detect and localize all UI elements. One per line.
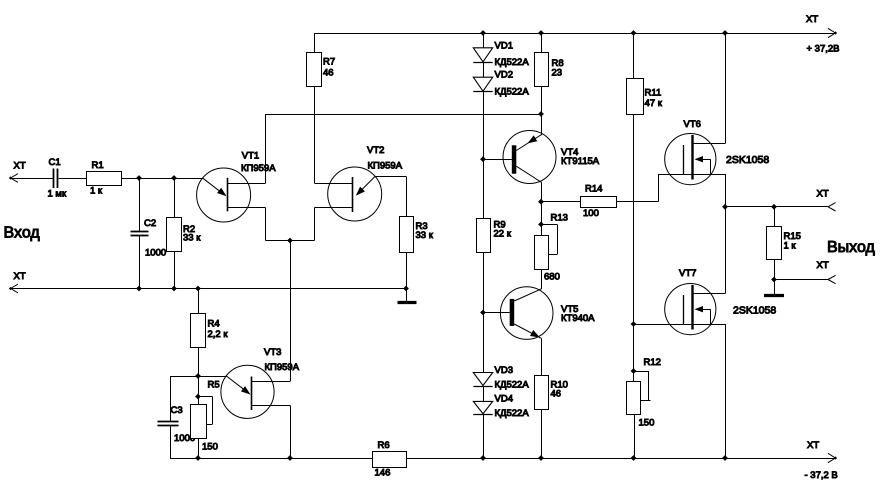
node top rail junction VT6 — [722, 30, 728, 36]
resistor R2 — [167, 218, 182, 252]
wire VD1-VD2 — [483, 63, 485, 77]
transistor VT1 channel bar — [227, 178, 229, 212]
transistor VT5 circle — [500, 287, 553, 340]
label XT input lower — [14, 271, 26, 282]
svg-text:XT: XT — [807, 440, 819, 451]
wire R4 upper — [198, 289, 200, 314]
label R13 value 680 — [544, 272, 560, 283]
wire input to C1 — [11, 178, 54, 180]
wire gate column middle — [633, 202, 635, 324]
transistor VT3 channel bar — [251, 377, 253, 411]
node R3 ground junction — [403, 286, 409, 292]
node bottom rail VD4 — [480, 455, 486, 461]
svg-text:VT3: VT3 — [264, 347, 281, 358]
transistor VT4 collector diagonal — [516, 166, 541, 182]
wire base node to R9 — [483, 159, 485, 218]
node common rail C2 — [136, 286, 142, 292]
wire VT5 emitter down — [541, 338, 543, 375]
wire VD3-VD4 — [483, 387, 485, 402]
wire VT4 base lead — [483, 159, 512, 161]
transistor VT5 collector diagonal — [514, 289, 541, 301]
wire VT1 drain up — [265, 114, 267, 183]
label R14 — [585, 184, 602, 195]
svg-text:КД522А: КД522А — [495, 380, 530, 391]
label XT top right — [806, 14, 818, 25]
label R15 — [784, 231, 801, 242]
label -37,2V — [805, 470, 838, 481]
XT terminal +37V arrow — [828, 28, 837, 37]
svg-text:1000: 1000 — [145, 247, 166, 258]
resistor R15 — [767, 227, 782, 260]
svg-text:R13: R13 — [551, 213, 568, 224]
svg-text:КТ940А: КТ940А — [561, 313, 595, 324]
wire VT4 to R13 — [541, 202, 543, 235]
label R4 — [208, 318, 220, 329]
svg-text:R14: R14 — [585, 184, 602, 195]
svg-text:1 мк: 1 мк — [48, 188, 67, 199]
node R8/drive junction — [538, 111, 544, 117]
wire C2 lower — [139, 236, 141, 289]
transistor VT3 collector lead — [251, 381, 290, 383]
transistor VT7 substrate arrow — [695, 306, 711, 324]
svg-text:C2: C2 — [144, 218, 156, 229]
XT output terminal lower — [828, 275, 836, 283]
transistor VT5 emitter diagonal — [514, 324, 541, 338]
wire VD4 to bottom rail — [483, 415, 485, 458]
label C2 value 1000 — [145, 247, 166, 258]
svg-text:КД522А: КД522А — [495, 87, 530, 98]
wire VD1 top — [483, 33, 485, 48]
resistor R6 — [373, 452, 407, 468]
label VD4 type КД522А — [495, 408, 530, 419]
svg-text:КТ9115А: КТ9115А — [561, 156, 600, 167]
diode VD2 — [473, 77, 492, 91]
svg-text:- 37,2 В: - 37,2 В — [805, 470, 838, 481]
svg-text:C1: C1 — [49, 157, 61, 168]
node VT3 bottom rail junction — [287, 455, 293, 461]
wire VT5 base lead — [483, 312, 510, 314]
svg-text:1 к: 1 к — [90, 186, 103, 197]
wire VT6 gate riser — [658, 174, 683, 202]
node input/R2 junction — [171, 175, 177, 181]
label R5 value 150 — [202, 441, 218, 452]
label R9 value 22 к — [494, 228, 512, 239]
svg-text:VD1: VD1 — [495, 40, 513, 51]
label R14 value 100 — [583, 208, 599, 219]
wire R15 top — [774, 207, 776, 226]
node top rail junction R11 — [631, 30, 637, 36]
svg-text:22 к: 22 к — [494, 228, 512, 239]
wire lower output line — [774, 279, 828, 281]
label Выход — [827, 239, 876, 256]
svg-text:R5: R5 — [208, 380, 220, 391]
svg-text:КП959А: КП959А — [241, 163, 276, 174]
resistor R3 — [400, 217, 414, 253]
resistor R7 — [307, 53, 322, 87]
svg-text:100: 100 — [583, 208, 599, 219]
XT output terminal upper — [828, 203, 836, 211]
svg-text:КП959А: КП959А — [368, 160, 403, 171]
label R8 — [552, 58, 564, 69]
node R15 ground junction — [771, 277, 777, 283]
wire R14 to gate riser — [616, 201, 658, 203]
transistor VT6 circle — [665, 134, 716, 185]
label XT output upper — [817, 189, 829, 200]
node input/C2 junction — [136, 175, 142, 181]
wire node to VT4 emitter — [541, 114, 543, 135]
transistor VT2 drain lead — [315, 183, 353, 185]
resistor R14 — [581, 197, 617, 208]
transistor VT7 source lead — [683, 324, 725, 326]
wire VT4 collector down — [541, 183, 543, 202]
wire VT2 gate to R3 — [375, 176, 406, 216]
label R6 value 146 — [375, 467, 391, 478]
label R11 — [645, 88, 662, 99]
wire output line — [725, 206, 828, 208]
label R2 — [183, 224, 195, 235]
resistor R4 — [191, 314, 206, 348]
wire source tail link — [266, 240, 315, 242]
wire C3 branch — [170, 376, 198, 421]
label R7 — [323, 56, 335, 67]
svg-text:VT1: VT1 — [242, 150, 259, 161]
svg-text:46: 46 — [323, 67, 334, 78]
svg-text:33 к: 33 к — [183, 232, 201, 243]
resistor R10 — [535, 376, 549, 410]
wire R13 to VT5 collector — [541, 269, 543, 289]
svg-text:2SK1058: 2SK1058 — [726, 154, 769, 166]
label XT bottom right — [807, 440, 819, 451]
svg-text:+ 37,2В: + 37,2В — [807, 44, 840, 55]
node top rail junction R8 — [538, 30, 544, 36]
node top rail junction VD1 — [480, 30, 486, 36]
transistor VT7 gate bar — [683, 295, 685, 324]
svg-text:XT: XT — [14, 160, 26, 171]
node R12 tap junction — [631, 368, 637, 374]
ground symbol at R3 — [398, 289, 417, 303]
wire drain line to R8 node — [266, 114, 542, 116]
svg-text:C3: C3 — [171, 405, 183, 416]
diode VD1 — [473, 48, 492, 63]
wire gate column lower — [633, 324, 635, 381]
label R11 value 47 к — [645, 98, 663, 109]
transistor VT1 gate diagonal — [203, 178, 227, 196]
label C3 — [171, 405, 183, 416]
svg-text:R7: R7 — [323, 56, 335, 67]
label C1 — [49, 157, 61, 168]
svg-text:VD4: VD4 — [495, 393, 513, 404]
label R9 — [494, 220, 506, 231]
node R14 junction — [538, 199, 544, 205]
svg-text:46: 46 — [551, 388, 562, 399]
svg-text:2SK1058: 2SK1058 — [733, 304, 776, 316]
wire VT3 emitter to rail — [290, 405, 292, 458]
transistor VT2 circle — [328, 167, 382, 221]
label R1 value 1 к — [90, 186, 103, 197]
transistor VT4 emitter diagonal — [516, 134, 541, 150]
transistor VT1 drain lead — [227, 183, 265, 185]
wire bottom rail left — [170, 458, 372, 460]
label R4 value 2,2 к — [208, 329, 229, 340]
label VD3 — [495, 365, 513, 376]
transistor VT6 channel bar — [691, 135, 693, 180]
node R13 tap junction — [538, 222, 544, 228]
wire gate line to VT3 — [198, 376, 227, 378]
svg-text:150: 150 — [202, 441, 218, 452]
transistor VT1 circle — [197, 168, 251, 222]
wire bottom rail right — [407, 458, 836, 460]
label R10 value 46 — [551, 388, 562, 399]
wire VT6 source to VT7 drain — [725, 207, 727, 294]
resistor R9 — [477, 219, 491, 253]
node common rail R2 — [171, 286, 177, 292]
wire R2 lower — [174, 251, 176, 289]
ground symbol at R15 — [764, 280, 784, 296]
transistor VT6 substrate arrow — [695, 156, 711, 174]
wire input common rail — [11, 288, 407, 290]
wire R7 top — [314, 33, 316, 52]
node bottom rail R10 — [538, 455, 544, 461]
svg-text:VT7: VT7 — [679, 268, 696, 279]
wire to R14 — [541, 201, 581, 203]
svg-text:R12: R12 — [644, 357, 661, 368]
label VT6 type 2SK1058 — [726, 154, 769, 166]
transistor VT5 base bar — [510, 299, 515, 326]
label Вход — [4, 225, 41, 242]
svg-text:680: 680 — [544, 272, 560, 283]
resistor R13 tap wire — [541, 224, 558, 254]
wire R11 to gate node — [633, 114, 635, 202]
label R3 value 33 к — [416, 230, 434, 241]
transistor VT4 circle — [503, 131, 556, 184]
label R3 — [416, 221, 428, 232]
node R4/C3/VT3-gate junction — [195, 373, 201, 379]
svg-text:XT: XT — [806, 14, 818, 25]
label VT4 type КТ9115А — [561, 156, 600, 167]
node common rail R4 — [195, 286, 201, 292]
transistor VT3 gate diagonal — [226, 376, 250, 395]
node output junction — [722, 204, 728, 210]
transistor VT3 emitter lead — [251, 405, 290, 407]
wire C2 upper — [139, 178, 141, 231]
transistor VT3 circle — [221, 365, 274, 418]
svg-text:R1: R1 — [92, 160, 104, 171]
wire +37V top rail — [315, 33, 836, 35]
svg-text:2,2 к: 2,2 к — [208, 329, 229, 340]
wire R7 to VT2 drain — [314, 87, 316, 184]
label R15 value 1 к — [784, 241, 797, 252]
XT input terminal lower — [9, 284, 18, 293]
label VT6 — [684, 119, 701, 130]
label VT3 type КП959А — [265, 362, 300, 373]
label +37,2V — [807, 44, 840, 55]
wire VD2 to VT4 base node — [483, 92, 485, 159]
resistor R11 — [627, 79, 644, 115]
svg-text:R11: R11 — [645, 88, 662, 99]
svg-text:XT: XT — [817, 189, 829, 200]
wire R11 top — [633, 33, 635, 79]
label VD3 type КД522А — [495, 380, 530, 391]
label C3 value 1000 — [174, 433, 195, 444]
resistor R12 — [627, 382, 641, 415]
label R1 — [92, 160, 104, 171]
label R2 value 33 к — [183, 232, 201, 243]
label VT1 type КП959А — [241, 163, 276, 174]
resistor R1 — [87, 172, 122, 186]
node tail junction — [287, 238, 293, 244]
resistor R12 tap wire — [634, 371, 651, 401]
label R8 value 23 — [552, 67, 563, 78]
label XT output lower — [817, 260, 829, 271]
svg-text:146: 146 — [375, 467, 391, 478]
svg-text:23: 23 — [552, 67, 563, 78]
diode VD4 — [473, 401, 492, 414]
wire R1 to VT1 gate — [121, 178, 203, 180]
transistor VT2 channel bar — [352, 177, 354, 212]
node R15 junction — [771, 204, 777, 210]
transistor VT1 source lead — [227, 207, 265, 209]
svg-text:XT: XT — [14, 271, 26, 282]
svg-text:XT: XT — [817, 260, 829, 271]
label R12 — [644, 357, 661, 368]
label VT2 — [367, 145, 384, 156]
wire base node to VD3 — [483, 313, 485, 373]
svg-text:33 к: 33 к — [416, 230, 434, 241]
svg-text:1 к: 1 к — [784, 241, 797, 252]
wire R8 to node — [541, 86, 543, 114]
label XT input upper — [14, 160, 26, 171]
capacitor C2 — [131, 232, 149, 236]
svg-text:VT2: VT2 — [367, 145, 384, 156]
node bottom rail VT7 — [722, 455, 728, 461]
label VT5 type КТ940А — [561, 313, 595, 324]
label VD4 — [495, 393, 513, 404]
svg-text:КД522А: КД522А — [495, 57, 530, 68]
label R12 value 150 — [639, 418, 655, 429]
svg-text:Вход: Вход — [4, 225, 41, 242]
node R5 bottom rail junction — [195, 455, 201, 461]
transistor VT6 drain lead — [694, 143, 726, 145]
node VT4 base junction — [480, 156, 486, 162]
svg-text:R4: R4 — [208, 318, 220, 329]
label R13 — [551, 213, 568, 224]
wire VT7 source down — [725, 324, 727, 458]
label VT2 type КП959А — [368, 160, 403, 171]
wire R2 upper — [174, 178, 176, 217]
wire VT1 source down — [265, 208, 267, 241]
transistor VT7 circle — [665, 284, 716, 335]
diode VD3 — [473, 373, 492, 387]
label VD1 — [495, 40, 513, 51]
label VD2 — [495, 70, 513, 81]
resistor R5 tap wire — [198, 397, 213, 425]
svg-text:150: 150 — [639, 418, 655, 429]
resistor R13 — [535, 236, 549, 270]
transistor VT2 source lead — [315, 207, 353, 209]
label VD2 type КД522А — [495, 87, 530, 98]
transistor VT7 channel bar — [691, 285, 693, 330]
node VT5 base junction — [480, 310, 486, 316]
label R5 — [208, 380, 220, 391]
node VT7 gate junction — [631, 321, 637, 327]
resistor R5 — [191, 405, 207, 439]
resistor R8 — [535, 53, 549, 87]
label C1 value 1 мк — [48, 188, 67, 199]
XT terminal -37V arrow — [828, 453, 837, 462]
label R6 — [378, 440, 390, 451]
svg-text:VD2: VD2 — [495, 70, 513, 81]
wire R5 to bottom rail — [198, 439, 200, 459]
transistor VT4 base bar — [512, 145, 517, 173]
wire R12 to bottom rail — [634, 414, 636, 458]
wire R4 to R5 — [198, 376, 200, 405]
label VT1 — [242, 150, 259, 161]
wire VT6 drain up — [725, 33, 727, 144]
label C2 — [144, 218, 156, 229]
label R7 value 46 — [323, 67, 334, 78]
label VT7 — [679, 268, 696, 279]
node R5 tap junction — [195, 394, 201, 400]
wire R8 top — [541, 33, 543, 53]
wire VT2 source down — [314, 208, 316, 241]
wire C1 to R1 — [59, 178, 87, 180]
wire tail to VT3 collector — [290, 241, 292, 382]
wire R4 lower — [198, 347, 200, 376]
svg-text:Выход: Выход — [827, 239, 876, 256]
label VT4 — [561, 147, 578, 158]
wire R9 to VT5 base node — [483, 252, 485, 313]
transistor VT6 gate bar — [683, 145, 685, 174]
wire VT7 gate lead — [634, 324, 684, 326]
wire R10 to bottom rail — [541, 410, 543, 459]
svg-text:VD3: VD3 — [495, 365, 513, 376]
svg-text:КП959А: КП959А — [265, 362, 300, 373]
label VT3 — [264, 347, 281, 358]
svg-text:47 к: 47 к — [645, 98, 663, 109]
svg-text:КД522А: КД522А — [495, 408, 530, 419]
transistor VT7 drain lead — [694, 293, 726, 295]
label R10 — [551, 380, 568, 391]
transistor VT6 source lead — [683, 174, 725, 176]
transistor VT2 gate diagonal — [356, 176, 375, 195]
capacitor C1 — [54, 169, 58, 189]
XT input terminal upper — [9, 174, 18, 183]
wire R15 bottom — [774, 260, 776, 280]
wire C3 to bottom rail — [170, 426, 172, 458]
node bottom rail R12 — [631, 455, 637, 461]
wire R3 lower — [406, 252, 408, 289]
label VD1 type КД522А — [495, 57, 530, 68]
svg-text:VT6: VT6 — [684, 119, 701, 130]
svg-text:R6: R6 — [378, 440, 390, 451]
capacitor C3 — [158, 422, 179, 426]
label VT7 type 2SK1058 — [733, 304, 776, 316]
label VT5 — [561, 304, 578, 315]
wire VT6 source down — [725, 174, 727, 207]
